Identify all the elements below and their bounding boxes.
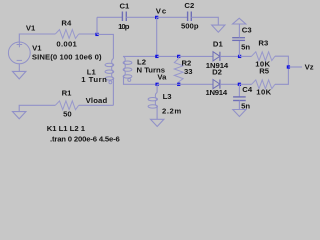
wire C4 down: [238, 84, 240, 97]
svg-text:33: 33: [184, 67, 193, 76]
capacitor C3 plates: [232, 39, 245, 41]
wire top rail to C1: [97, 16, 122, 18]
svg-text:5n: 5n: [241, 101, 250, 110]
svg-text:K1 L1 L2 1: K1 L1 L2 1: [47, 124, 86, 133]
svg-text:L3: L3: [163, 92, 172, 101]
svg-text:C4: C4: [242, 85, 253, 94]
node J1 junction: [95, 33, 98, 36]
node C3 junction: [238, 55, 241, 58]
wire C3 node to R3: [240, 55, 252, 57]
ground below C2: [212, 25, 225, 32]
svg-text:C1: C1: [120, 2, 131, 11]
ground flipped above C3: [233, 18, 246, 24]
capacitor C4 plates: [233, 96, 246, 98]
svg-text:R1: R1: [62, 89, 73, 98]
ground below C4: [233, 110, 246, 117]
svg-text:R5: R5: [259, 67, 270, 76]
diode D1 cathode bar: [219, 52, 221, 61]
node C4 junction: [238, 83, 241, 86]
L1 phase dot: [109, 81, 112, 84]
ground below V1: [13, 71, 26, 79]
svg-text:C2: C2: [184, 1, 194, 10]
wire V1 top to R4: [19, 34, 55, 42]
resistor R5 zigzag: [252, 80, 275, 89]
wire L3 to ground: [156, 106, 158, 119]
wire R5 to right corner up: [275, 67, 288, 84]
wire R1 to ground corner: [19, 105, 55, 111]
wire J1 to L1 top: [97, 34, 113, 58]
resistor R4 zigzag: [55, 30, 78, 39]
svg-text:D1: D1: [213, 39, 224, 48]
V1 minus sign: [17, 59, 22, 61]
wire L1 bottom to Vload rail: [112, 78, 114, 105]
L2 phase dot: [128, 78, 131, 81]
wire Vz stub: [288, 66, 302, 68]
svg-text:Vc: Vc: [156, 6, 167, 15]
svg-text:1N914: 1N914: [206, 88, 228, 97]
node Vz junction: [287, 65, 290, 68]
svg-text:500p: 500p: [181, 21, 199, 30]
ground below L3: [151, 119, 164, 126]
node rail2-Vc junction: [155, 55, 158, 58]
svg-text:C3: C3: [242, 25, 252, 34]
svg-text:R4: R4: [61, 18, 72, 27]
svg-text:V1: V1: [32, 44, 42, 53]
wire V1 bottom: [18, 64, 20, 72]
wire Vc to C2: [157, 16, 188, 18]
node Va junction: [155, 83, 158, 86]
wire L1 bottom rail to R1: [79, 104, 114, 106]
wire D1 to C3 node: [220, 55, 240, 57]
wire J1 up to top rail: [96, 17, 98, 34]
svg-text:10K: 10K: [256, 88, 271, 97]
svg-text:2.2m: 2.2m: [162, 107, 181, 116]
diode D2 triangle: [213, 80, 220, 89]
wire D2 to C4 node: [220, 83, 240, 85]
svg-text:Vload: Vload: [86, 96, 108, 105]
wire R2 bottom to D2: [179, 83, 213, 85]
wire C4 to ground: [238, 101, 240, 110]
wire C3 plate to flipped ground: [238, 24, 240, 38]
inductor L3 coil: [155, 93, 157, 100]
svg-text:V1: V1: [26, 24, 36, 33]
node R2 top junction: [177, 55, 180, 58]
ground below R1 wire: [13, 112, 26, 119]
wire Va to R2 bottom: [157, 83, 179, 85]
wire C2 to ground: [191, 17, 218, 25]
diode D2 cathode bar: [219, 80, 221, 89]
wire C1 to Vc node: [126, 16, 156, 18]
svg-text:.tran 0 200e-6 4.5e-6: .tran 0 200e-6 4.5e-6: [50, 134, 120, 143]
node Vc junction: [155, 16, 158, 19]
svg-text:D2: D2: [212, 68, 222, 77]
inductor L1 coil: [112, 59, 114, 65]
voltage source V1 circle: [8, 42, 30, 64]
capacitor C2 plates: [187, 12, 189, 22]
resistor R3 zigzag: [252, 52, 275, 61]
resistor R2 zigzag: [174, 58, 183, 81]
svg-text:50: 50: [63, 110, 72, 119]
wire rail2 to D1: [179, 55, 213, 57]
svg-text:1 Turn: 1 Turn: [81, 75, 107, 84]
svg-text:5n: 5n: [241, 42, 250, 51]
resistor R1 zigzag: [55, 101, 78, 110]
wire R2 bottom stub: [178, 82, 180, 85]
wire R2 top stub: [178, 56, 180, 58]
V1 plus sign: [17, 44, 23, 46]
wire Vc down to mid rail: [156, 17, 158, 56]
svg-text:Va: Va: [157, 73, 167, 82]
svg-text:0.001: 0.001: [56, 39, 77, 48]
svg-text:R3: R3: [258, 38, 268, 47]
svg-text:10p: 10p: [118, 22, 130, 31]
wire Va down to L3: [156, 84, 158, 92]
node R2 bottom junction: [177, 83, 180, 86]
capacitor C1 plates: [121, 12, 123, 22]
svg-text:SINE(0 100 10e6 0): SINE(0 100 10e6 0): [32, 53, 102, 62]
wire L2 top to mid rail: [124, 55, 157, 58]
wire C4 node to R5: [239, 83, 251, 85]
svg-text:Vz: Vz: [305, 62, 314, 71]
diode D1 triangle: [213, 52, 220, 61]
wire rail2 to R2: [157, 55, 179, 57]
wire R4 to node J1: [79, 33, 97, 35]
wire R3 to right corner: [275, 56, 288, 67]
wire L2 bottom to Va: [124, 76, 158, 84]
wire C3 up: [238, 41, 240, 57]
inductor L2 coil: [124, 57, 126, 63]
